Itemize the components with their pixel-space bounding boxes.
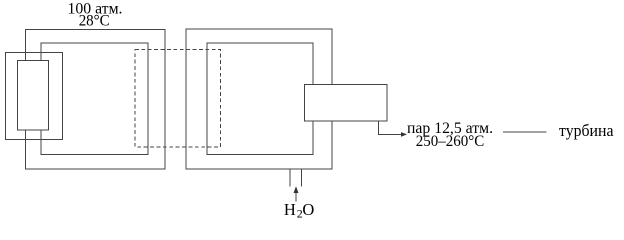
svg-text:28°C: 28°C xyxy=(79,13,110,30)
svg-text:турбина: турбина xyxy=(559,121,614,140)
svg-text:250–260°C: 250–260°C xyxy=(416,133,485,150)
svg-text:H: H xyxy=(284,200,296,219)
svg-text:O: O xyxy=(302,200,314,219)
